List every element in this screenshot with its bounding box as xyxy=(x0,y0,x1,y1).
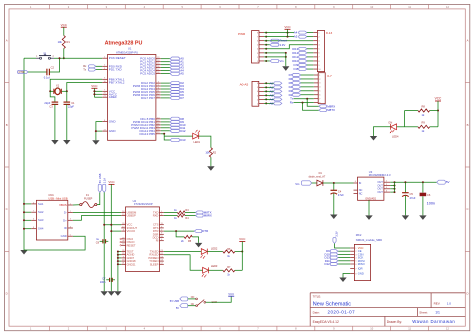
IC U3 body xyxy=(358,177,384,200)
svg-text:100n: 100n xyxy=(100,281,106,284)
CN1 pin 4 ID xyxy=(68,227,73,229)
junction xyxy=(287,32,289,34)
svg-text:ID: ID xyxy=(64,226,67,230)
wire D- to USBDM xyxy=(73,211,121,213)
wire D12 to MK2 xyxy=(338,263,350,265)
ground (MK2) xyxy=(339,278,346,283)
wire gnd pin stub xyxy=(118,251,121,253)
wire IO12 to header xyxy=(307,52,313,54)
U4 pin 4 VCCIO xyxy=(121,230,125,232)
wire gnd rail xyxy=(285,53,287,66)
svg-text:10k: 10k xyxy=(205,151,210,155)
svg-text:Drawn By:: Drawn By: xyxy=(387,320,402,324)
svg-text:DTR: DTR xyxy=(202,229,208,233)
LED LED3 xyxy=(203,267,209,273)
capacitor C4 xyxy=(331,189,338,191)
wire OUT bus xyxy=(390,188,394,190)
wire A5 to header xyxy=(307,36,313,38)
0-7 header pin 1 xyxy=(314,74,318,76)
wire D11 to MK2 xyxy=(338,260,350,262)
U4 pin 27 OSCI xyxy=(121,238,125,240)
wire R1 to reset node xyxy=(63,49,65,59)
MK2 pin 5 MOSI xyxy=(350,260,354,262)
wire Vin to D1 xyxy=(312,182,317,184)
wire OUT bus xyxy=(390,191,394,193)
PWR pin 7 xyxy=(259,36,264,38)
svg-text:IO8: IO8 xyxy=(294,67,299,71)
wire LED3 to R7 xyxy=(209,269,223,271)
junction xyxy=(265,82,267,84)
U4 ground bus xyxy=(117,252,119,292)
U1 pin 27 PC4 ADC4 xyxy=(156,70,161,72)
0-7 header pin 6 xyxy=(314,94,318,96)
svg-text:SLEEP: SLEEP xyxy=(150,262,159,266)
wire C3 to ground xyxy=(54,104,56,140)
U4 pin 5 RXD xyxy=(160,215,164,217)
svg-text:VCC: VCC xyxy=(228,292,234,296)
MK2 pin 1 VCC xyxy=(350,247,354,249)
wire to net label A2 xyxy=(161,64,170,66)
wire MK2 GND xyxy=(343,274,350,278)
svg-text:DTR: DTR xyxy=(19,70,24,74)
junction xyxy=(265,90,267,92)
wire to net label D8 xyxy=(161,118,170,120)
junction xyxy=(265,40,267,42)
wire D13 node xyxy=(161,133,164,135)
svg-text:VCC: VCC xyxy=(284,25,291,29)
PWR pin 2 xyxy=(259,56,264,58)
U1 pin 5 PWM DIG3 PD3 xyxy=(156,85,161,87)
wire reset row xyxy=(54,57,102,59)
A0-A5 pin 3 xyxy=(259,94,264,96)
svg-text:LED1: LED1 xyxy=(194,140,201,144)
wire to net label D11 xyxy=(161,127,170,129)
U4 pin 26 TEST xyxy=(121,251,125,253)
svg-text:NC: NC xyxy=(359,191,363,195)
wire to net label D10 xyxy=(161,124,170,126)
junction xyxy=(23,211,25,213)
wire Rx to pin 2 xyxy=(96,65,102,67)
svg-text:0-7: 0-7 xyxy=(327,74,332,78)
wire R7 to VCC rail xyxy=(235,269,242,271)
junction xyxy=(265,44,267,46)
wire to net label A3 xyxy=(264,94,274,96)
svg-text:VCC: VCC xyxy=(435,97,442,101)
svg-text:VCC: VCC xyxy=(61,23,68,27)
svg-text:A5: A5 xyxy=(294,35,298,39)
resistor R1 xyxy=(62,36,65,49)
junction xyxy=(93,93,95,95)
U4 pin 22 RXLED xyxy=(160,254,164,256)
wire to C4 xyxy=(333,183,335,190)
wire left ground rail xyxy=(23,58,25,250)
net flag 5V USB xyxy=(98,184,101,192)
net flag 3.3V (MK2) xyxy=(333,237,336,243)
A0-A5 pin 6 xyxy=(259,82,264,84)
wire R3 to M8TX xyxy=(185,211,196,213)
junction xyxy=(117,257,119,259)
net label A0 xyxy=(170,57,179,60)
U4 pin 28 OSCO xyxy=(121,241,125,243)
8-13 header pin 1 xyxy=(313,32,317,34)
svg-text:C5: C5 xyxy=(410,192,414,196)
svg-text:VCCIO: VCCIO xyxy=(127,229,136,233)
wire PWR pin7 to gnd rail xyxy=(264,56,286,58)
wire to net label D6 xyxy=(161,94,170,96)
wire XTAL1 xyxy=(50,79,102,91)
svg-text:MK2: MK2 xyxy=(356,233,362,237)
wire D10 to MK2 xyxy=(338,253,350,255)
A0-A5 pin 4 xyxy=(259,90,264,92)
PWR pin 5 xyxy=(259,44,264,46)
wire branch left side xyxy=(404,111,406,127)
svg-text:C: C xyxy=(466,207,468,211)
svg-text:LED2: LED2 xyxy=(211,246,218,250)
junction xyxy=(175,230,177,232)
junction xyxy=(117,251,119,253)
ground (C4) xyxy=(330,215,337,220)
wire X1 to C3 xyxy=(50,91,55,102)
U1 pin 7 VCC xyxy=(102,90,107,92)
U4 pin 7 GND7 xyxy=(121,257,125,259)
junction xyxy=(117,260,119,262)
junction xyxy=(285,52,287,54)
U1 pin 21 AREF xyxy=(102,96,107,98)
wire shield to rail xyxy=(24,219,31,221)
no-connect marker xyxy=(120,238,121,239)
junction xyxy=(66,90,68,92)
net label M8RX xyxy=(319,105,327,108)
svg-text:RI: RI xyxy=(156,239,159,243)
no-connect marker xyxy=(120,241,121,242)
junction xyxy=(394,191,396,193)
svg-text:R9: R9 xyxy=(422,121,426,125)
U4 pin 9 DSR xyxy=(160,233,164,235)
junction xyxy=(265,52,267,54)
U1 pin 16 PWM DIG10 PB2 xyxy=(156,124,161,126)
wire PWR pin2 to A5 xyxy=(264,36,294,38)
CN1 pin 5 SH1 xyxy=(31,203,36,205)
wire LED4 to ground xyxy=(374,127,391,136)
junction xyxy=(422,181,424,183)
U1 pin 18 DIG12 PB4 xyxy=(156,130,161,132)
svg-text:diode_smd_A7: diode_smd_A7 xyxy=(309,175,326,178)
svg-text:SH3: SH3 xyxy=(38,218,44,222)
wire U3 gnd xyxy=(368,200,370,215)
wire X1 to C1 xyxy=(66,91,68,102)
junction xyxy=(23,203,25,205)
svg-text:100n: 100n xyxy=(427,201,435,205)
svg-text:Atmega328 PU: Atmega328 PU xyxy=(105,40,143,46)
net label D12 xyxy=(170,129,179,132)
U1 pin 10 PB7 XTAL2 xyxy=(102,82,107,84)
PWR pin 1 xyxy=(259,60,264,62)
junction xyxy=(93,90,95,92)
U4 pin 11 CTS xyxy=(160,224,164,226)
wire to net label A1 xyxy=(161,61,170,63)
wire D4 to header xyxy=(301,86,314,88)
U4 pin 3 RTS xyxy=(160,227,164,229)
svg-text:D12: D12 xyxy=(180,129,186,133)
U4 pin 14 PWREN xyxy=(160,257,164,259)
net flag (switch NC) xyxy=(180,304,188,308)
wire to net label D9 xyxy=(161,121,170,123)
PWR pin 8 xyxy=(259,32,264,34)
net label D10 xyxy=(170,123,179,126)
wire D+ to USBDP xyxy=(73,216,121,221)
svg-text:TITLE:: TITLE: xyxy=(313,295,322,299)
junction xyxy=(265,60,267,62)
svg-text:GND/ADJ: GND/ADJ xyxy=(365,198,377,201)
net label D2 xyxy=(170,81,179,84)
wire to net label A0 xyxy=(161,58,170,60)
U3 pin OUT 3 xyxy=(384,185,390,187)
svg-text:PD1 TXD: PD1 TXD xyxy=(109,68,123,72)
U1 pin 1 PC6 RESET xyxy=(102,57,107,59)
svg-text:M8TX: M8TX xyxy=(327,108,335,112)
CN1 pin 5 GND xyxy=(68,235,73,237)
wire to M8RX flag xyxy=(307,99,319,107)
svg-text:NRF24_module_SMD: NRF24_module_SMD xyxy=(356,238,382,242)
junction xyxy=(110,230,112,232)
frame column ticks top xyxy=(50,4,429,8)
wire C6 to ground xyxy=(422,196,424,215)
svg-text:PWR: PWR xyxy=(238,32,246,36)
0-7 header pin 7 xyxy=(314,98,318,100)
MK2 pin 3 CSN xyxy=(350,253,354,255)
connector 8-13 header body xyxy=(317,31,324,72)
net label A2 xyxy=(170,63,179,66)
ground (5V rail) xyxy=(101,291,108,296)
A0-A5 pin 2 xyxy=(259,98,264,100)
wire to net label A1 xyxy=(264,86,274,88)
wire fuse to 5V USB flag xyxy=(97,192,100,204)
wire IO11 to header xyxy=(307,56,313,58)
CN1 pin 7 SH2 xyxy=(31,211,36,213)
wire R8 to VCC rail xyxy=(430,110,438,112)
U1 pin 19 DIG13 PB5 xyxy=(156,133,161,135)
svg-text:Sheet:: Sheet: xyxy=(419,311,428,315)
wire OUT bus vertical xyxy=(394,182,396,192)
wire DTR row xyxy=(164,230,195,232)
wire to net label A4 xyxy=(264,98,274,100)
junction xyxy=(265,98,267,100)
connector A0-A5 header body xyxy=(252,81,259,106)
MK2 pin 8 GND xyxy=(350,273,354,275)
svg-text:GND: GND xyxy=(109,129,117,133)
MK2 pin 7 IQR xyxy=(350,268,354,270)
net label D4 xyxy=(170,87,179,90)
svg-text:47uF: 47uF xyxy=(410,196,416,200)
U4 pin 23 TXLED xyxy=(160,251,164,253)
svg-text:B: B xyxy=(6,123,8,127)
wire 5V rail down xyxy=(103,192,105,291)
wire gnd pin stub xyxy=(118,260,121,262)
junction xyxy=(437,110,439,112)
net flag 5V xyxy=(437,180,446,184)
U4 pin 15 USBDP xyxy=(121,215,125,217)
junction xyxy=(333,182,335,184)
wire IO8 to header xyxy=(307,68,313,70)
wire LED1 to R2 xyxy=(199,136,211,148)
wire D2 to header xyxy=(301,94,314,96)
net flag DTR xyxy=(18,70,29,73)
0-7 header pin 2 xyxy=(314,78,318,80)
U1 pin 11 PWM DIG5 PD5 xyxy=(156,91,161,93)
wire LED2 to R6 xyxy=(207,251,223,253)
wire D3 to header xyxy=(301,90,314,92)
svg-text:D13: D13 xyxy=(180,138,186,142)
U1 pin 13 DIG7 PD7 xyxy=(156,97,161,99)
svg-text:VBUS: VBUS xyxy=(59,203,67,207)
wire D1 to U3 xyxy=(323,182,354,184)
svg-text:PC5 ADC5: PC5 ADC5 xyxy=(140,72,155,76)
wire R9 branch xyxy=(405,126,418,128)
no-connect marker xyxy=(120,245,121,246)
svg-text:FUSEP: FUSEP xyxy=(84,198,93,201)
U1 pin 25 PC2 ADC2 xyxy=(156,64,161,66)
svg-text:GND: GND xyxy=(358,271,364,275)
U1 pin 22 GND xyxy=(102,130,107,132)
svg-text:New Schematic: New Schematic xyxy=(313,301,351,307)
svg-text:B: B xyxy=(467,123,469,127)
resistor R7 xyxy=(223,269,235,272)
junction xyxy=(265,102,267,104)
wire R4 to M8RX xyxy=(185,215,196,217)
wire C4 to ground xyxy=(333,194,335,215)
svg-text:Vin: Vin xyxy=(279,59,284,63)
svg-text:FT232RLSSOP: FT232RLSSOP xyxy=(134,202,153,206)
wire R2 to ground xyxy=(210,157,212,166)
U1 pin 26 PC3 ADC3 xyxy=(156,67,161,69)
ground (C3) xyxy=(51,140,58,145)
resistor R4 xyxy=(177,214,185,217)
wire PWR pin4 stub xyxy=(264,44,270,46)
connector 0-7 header body xyxy=(318,73,325,104)
junction xyxy=(394,181,396,183)
wire IO13 to header xyxy=(307,48,313,50)
wire D5 to header xyxy=(301,82,314,84)
IC U1 body xyxy=(108,55,156,141)
junction xyxy=(23,228,25,230)
net label M8TX xyxy=(319,109,327,112)
resistor R6 xyxy=(223,250,235,253)
wire to C6 xyxy=(422,182,424,192)
junction xyxy=(163,133,165,135)
wire to net label D3 xyxy=(161,85,170,87)
svg-text:A: A xyxy=(467,39,469,43)
svg-text:IQR: IQR xyxy=(358,267,363,271)
wire VCCIO row xyxy=(111,230,121,232)
PWR pin 6 xyxy=(259,40,264,42)
wire to net label D12 xyxy=(161,130,170,132)
svg-text:3.3V: 3.3V xyxy=(334,231,338,237)
net flag 3.3V xyxy=(270,43,279,46)
wire DTR to C2 xyxy=(28,71,47,73)
wire C1 to ground xyxy=(66,104,68,140)
frame column ticks bottom xyxy=(50,326,429,331)
svg-text:X1: X1 xyxy=(56,84,60,88)
svg-text:D12: D12 xyxy=(324,262,330,266)
svg-text:Rx: Rx xyxy=(290,101,294,105)
U4 pin 18 GND18 xyxy=(121,260,125,262)
svg-text:D7: D7 xyxy=(180,96,184,100)
wire to net label D4 xyxy=(161,88,170,90)
junction reset node xyxy=(63,57,65,59)
U4 pin 10 DCD xyxy=(160,237,164,239)
LED LED1 xyxy=(193,133,199,139)
title block frame xyxy=(310,293,465,326)
svg-text:D-: D- xyxy=(64,210,67,214)
wire R5 to ground xyxy=(192,237,198,243)
wire PWR pin6 to gnd rail xyxy=(264,52,286,54)
wire R6 to VCC rail xyxy=(235,251,242,253)
svg-text:C6: C6 xyxy=(427,193,431,197)
svg-text:Wawan Darmawan: Wawan Darmawan xyxy=(412,319,455,324)
net flag 1.1A xyxy=(103,184,106,192)
svg-text:DIG13 PB5: DIG13 PB5 xyxy=(139,132,155,136)
8-13 header pin 6 xyxy=(313,52,317,54)
wire gnd pin stub xyxy=(118,263,121,265)
U4 pin 17 3V3OUT xyxy=(121,227,125,229)
svg-text:GND: GND xyxy=(61,234,67,238)
wire PWR pin3 row xyxy=(264,40,313,42)
capacitor C5 xyxy=(402,192,409,194)
net flag (switch NO) xyxy=(180,297,188,301)
wire C2 to reset node xyxy=(49,58,59,72)
U4 pin 6 RI xyxy=(160,240,164,242)
wire USB GND xyxy=(24,236,85,250)
svg-text:1.1A: 1.1A xyxy=(103,178,106,183)
svg-text:3.3V: 3.3V xyxy=(279,43,285,47)
U1 pin 6 DIG4 PD4 xyxy=(156,88,161,90)
U1 pin 17 PWM DIG11 PB3 xyxy=(156,127,161,129)
U1 pin 8 GND xyxy=(102,121,107,123)
junction xyxy=(117,254,119,256)
wire VBUS to fuse xyxy=(73,204,80,206)
wire VCC rail to LED3 xyxy=(241,242,243,271)
svg-text:D: D xyxy=(6,292,8,296)
svg-text:C4: C4 xyxy=(338,190,342,194)
svg-text:ATMEGA328P-PU: ATMEGA328P-PU xyxy=(116,50,138,54)
wire to net label D2 xyxy=(161,82,170,84)
wire gnd pin stub xyxy=(118,254,121,256)
0-7 header pin 4 xyxy=(314,86,318,88)
net label M8RX xyxy=(196,214,204,217)
wire to M8TX flag xyxy=(303,103,319,111)
wire VCC rail down xyxy=(110,184,112,291)
wire shield to rail xyxy=(24,203,31,205)
svg-text:Date:: Date: xyxy=(313,311,320,315)
U4 pin 16 USBDM xyxy=(121,211,125,213)
wire PWR pin5 to header 8-13 pin4 xyxy=(264,45,313,49)
junction xyxy=(103,224,105,226)
wire to net label A5 xyxy=(161,73,170,75)
U1 pin 20 AVCC xyxy=(102,93,107,95)
wire Tx to pin 3 xyxy=(96,69,102,71)
wire to net label D5 xyxy=(161,91,170,93)
wire VCC down xyxy=(437,101,439,127)
svg-text:SH2: SH2 xyxy=(38,210,44,214)
svg-text:A0-A5: A0-A5 xyxy=(240,83,249,87)
junction xyxy=(394,188,396,190)
U4 pin 21 GND21 xyxy=(121,263,125,265)
net label D7 xyxy=(170,96,179,99)
wire D13 to LED1 xyxy=(164,135,193,137)
wire IO9 to header xyxy=(307,64,313,66)
wire TXLED to LED2 xyxy=(164,251,202,253)
svg-text:A5: A5 xyxy=(270,101,274,105)
